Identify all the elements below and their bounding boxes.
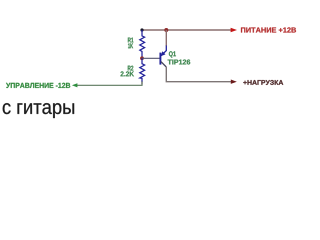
label УПРАВЛЕНИЕ -12В [6,83,70,88]
label +НАГРУЗКА [243,80,283,85]
label с гитары [3,103,74,118]
label R1 [128,38,133,43]
collector lead [161,62,166,67]
wire: top rail from corner to power arrow [142,29,231,31]
wire: green control wire from R2 bottom [76,84,142,86]
node: junction dot on top rail [164,28,168,32]
node: top-left corner junction [140,28,143,31]
label ПИТАНИЕ +12В [241,27,296,32]
label 2.2K [121,71,135,76]
power arrow ПИТАНИЕ +12В [231,28,237,32]
label Q1 [169,51,176,57]
load arrow +НАГРУЗКА [231,80,237,84]
transistor Q1 TIP126 (PNP) [160,46,166,68]
wire: collector L-wire to load arrow [166,67,231,82]
label R2 [128,66,134,71]
node: base node junction dot [140,56,144,60]
resistor R1 [140,30,145,58]
wire: vertical from top rail to Q1 emitter [165,30,167,46]
emitter lead [161,46,166,56]
label TIP126 [168,60,191,65]
resistor R2 [140,58,145,82]
emitter arrowhead [161,51,166,56]
control arrow УПРАВЛЕНИЕ -12В (points left) [72,83,78,87]
base bar [159,53,161,65]
wire: R2 bottom lead to corner [141,82,143,85]
wire: base wire to Q1 [142,57,160,59]
label 1K [128,43,133,48]
